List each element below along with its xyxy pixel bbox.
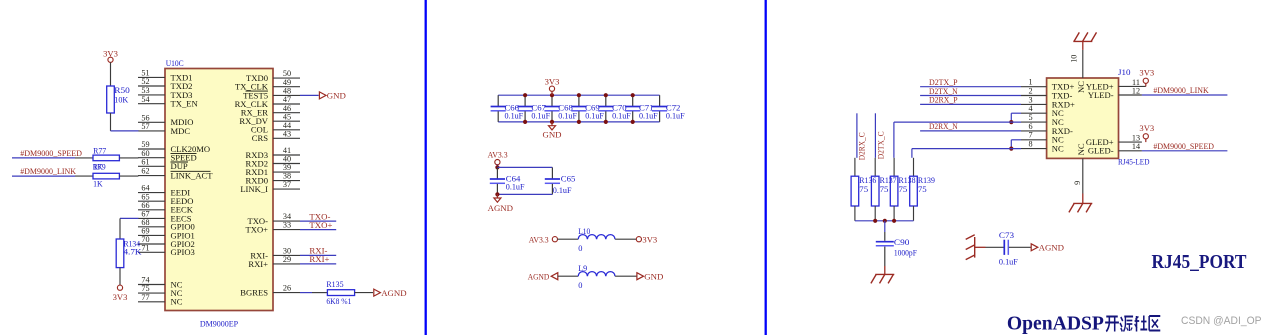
svg-text:L10: L10 xyxy=(578,227,590,236)
junction bus C90 xyxy=(883,219,887,223)
wire AV3.3 stem xyxy=(496,165,498,168)
RJ45 pin 2 TXD- xyxy=(1021,86,1072,100)
svg-text:8: 8 xyxy=(1028,140,1032,149)
svg-text:2: 2 xyxy=(1028,86,1032,95)
svg-text:D2TX_C: D2TX_C xyxy=(876,131,885,159)
svg-text:AGND: AGND xyxy=(528,272,550,282)
watermark CSDN @ADI_OP xyxy=(1181,315,1262,327)
svg-text:TXO+: TXO+ xyxy=(245,225,268,235)
svg-text:57: 57 xyxy=(141,122,149,131)
svg-text:3: 3 xyxy=(1028,95,1032,104)
capacitor C71 xyxy=(625,95,658,122)
wire R50 to pin 57 xyxy=(111,113,139,131)
IC J10 RJ45-LED body xyxy=(1047,78,1119,158)
svg-text:YLED-: YLED- xyxy=(1088,90,1114,100)
svg-text:AV3.3: AV3.3 xyxy=(488,150,508,160)
wire D2TX_N xyxy=(920,95,1021,97)
wire TXO- xyxy=(300,220,336,222)
svg-text:R77: R77 xyxy=(93,147,106,156)
svg-text:L9: L9 xyxy=(578,264,587,273)
IC U10C DM9000EP body xyxy=(165,69,273,311)
power port 3V3 (R134 bottom) xyxy=(113,285,128,302)
svg-text:RXI+: RXI+ xyxy=(309,254,329,264)
svg-text:6K8 %1: 6K8 %1 xyxy=(326,297,351,306)
RJ45 pin 5 NC xyxy=(1021,113,1064,127)
RJ45 pin 12 YLED- xyxy=(1088,86,1142,100)
pin 65 EEDO xyxy=(138,192,193,206)
resistor R134 xyxy=(116,239,141,268)
pin 49 TX_CLK xyxy=(235,78,300,92)
svg-text:J10: J10 xyxy=(1118,68,1131,77)
title OpenADSP xyxy=(1007,312,1104,334)
svg-text:OpenADSP: OpenADSP xyxy=(1007,312,1104,334)
power port 3V3 (cap rail) xyxy=(545,77,560,96)
svg-text:37: 37 xyxy=(283,180,291,189)
svg-text:D2RX_C: D2RX_C xyxy=(858,132,867,160)
junction bottom rail x=632.7 xyxy=(631,120,635,124)
pin 62 LINK_ACT xyxy=(138,167,213,181)
section divider line 2 xyxy=(765,0,767,335)
svg-text:52: 52 xyxy=(141,77,149,86)
wire RXI+ xyxy=(300,263,336,265)
svg-text:71: 71 xyxy=(141,243,149,252)
net label D2RX_P xyxy=(929,95,958,105)
wire L9 to GND xyxy=(615,275,637,277)
power port GND (pin 48) xyxy=(319,91,345,101)
svg-text:R79: R79 xyxy=(93,163,106,172)
svg-text:RJ45_PORT: RJ45_PORT xyxy=(1152,251,1248,273)
svg-text:1: 1 xyxy=(1028,78,1032,87)
svg-text:75: 75 xyxy=(918,185,927,194)
net label D2TX_N xyxy=(929,86,958,96)
wire D2TX_C xyxy=(874,113,876,158)
svg-text:3V3: 3V3 xyxy=(1139,67,1154,77)
capacitor C73 xyxy=(986,231,1032,266)
net label #DM9000_SPEED xyxy=(1153,141,1214,151)
pin 53 TXD3 xyxy=(138,86,192,100)
wire #DM9000_LINK xyxy=(1142,94,1228,96)
wire C64-C65 bottom xyxy=(497,193,552,195)
svg-text:D2RX_P: D2RX_P xyxy=(929,95,958,105)
svg-text:47: 47 xyxy=(283,95,291,104)
RJ45 pin 3 RXD+ xyxy=(1021,95,1075,109)
wire 3V3 rail xyxy=(498,94,659,96)
wire #DM9000_SPEED xyxy=(1142,150,1228,152)
wire TXO+ xyxy=(300,229,336,231)
power port AGND (L9) xyxy=(528,272,558,282)
svg-text:AGND: AGND xyxy=(1039,243,1064,253)
pin 50 TXD0 xyxy=(246,69,300,83)
net label D2RX_C xyxy=(858,132,867,160)
junction pin8 xyxy=(1009,147,1013,151)
earth ground (C90) xyxy=(871,266,894,283)
svg-text:NC: NC xyxy=(171,297,183,307)
svg-text:4.7K: 4.7K xyxy=(124,248,142,257)
RJ45 pin 6 RXD- xyxy=(1021,122,1073,136)
pin 69 GPIO1 xyxy=(138,227,195,241)
pin 70 GPIO2 xyxy=(138,235,195,249)
wire pin7 to pin8 xyxy=(1011,140,1021,149)
svg-text:75: 75 xyxy=(899,185,908,194)
svg-text:NC: NC xyxy=(1076,81,1086,93)
wire GND rail xyxy=(498,121,659,123)
svg-text:U10C: U10C xyxy=(166,59,184,68)
svg-text:10: 10 xyxy=(1069,55,1078,63)
section divider line 1 xyxy=(425,0,427,335)
RJ45 pin 7 NC xyxy=(1021,131,1064,145)
pin 38 RXD0 xyxy=(246,172,300,186)
svg-text:AV3.3: AV3.3 xyxy=(529,234,549,244)
svg-text:GPIO3: GPIO3 xyxy=(171,247,195,257)
inductor L10 xyxy=(578,227,615,253)
svg-text:3V3: 3V3 xyxy=(1139,123,1154,133)
part name DM9000EP xyxy=(200,320,239,329)
svg-text:0.1uF: 0.1uF xyxy=(639,111,658,120)
svg-text:CRS: CRS xyxy=(252,133,268,143)
svg-text:1000pF: 1000pF xyxy=(894,249,917,258)
resistor R77 xyxy=(75,147,138,172)
capacitor C70 xyxy=(598,95,631,122)
wire D2RX_P xyxy=(920,103,1021,105)
power port AGND (pin 26) xyxy=(374,288,407,298)
title RJ45_PORT xyxy=(1152,251,1248,273)
wire pin5 row xyxy=(894,122,1021,158)
pin 26 BGRES xyxy=(240,284,300,298)
svg-text:54: 54 xyxy=(141,95,149,104)
svg-text:LINK_ACT: LINK_ACT xyxy=(171,171,214,181)
resistor R138 xyxy=(890,158,915,221)
resistor R135 xyxy=(326,280,354,306)
svg-text:10K: 10K xyxy=(114,96,128,105)
RJ45 pin 9 NC (bottom) xyxy=(1073,143,1086,193)
junction bus R138 xyxy=(892,219,896,223)
pin 67 EECS xyxy=(138,210,192,224)
net label RXI+ xyxy=(309,254,329,264)
wire RXI- xyxy=(300,254,336,256)
svg-text:AGND: AGND xyxy=(488,203,513,213)
net label #DM9000_LINK xyxy=(20,166,76,176)
wire AGND to L9 xyxy=(558,275,578,277)
capacitor C66 xyxy=(491,95,524,122)
svg-text:29: 29 xyxy=(283,255,291,264)
svg-text:1K: 1K xyxy=(93,180,103,189)
earth ground (RJ45 bottom) xyxy=(1069,194,1092,213)
svg-text:0.1uF: 0.1uF xyxy=(506,183,525,192)
svg-text:62: 62 xyxy=(141,167,149,176)
resistor R136 xyxy=(851,158,876,221)
svg-text:59: 59 xyxy=(141,140,149,149)
wire #DM9000_LINK xyxy=(12,175,75,177)
svg-text:0.1uF: 0.1uF xyxy=(531,111,550,120)
svg-text:5: 5 xyxy=(1028,113,1032,122)
RJ45 pin 14 GLED- xyxy=(1088,142,1142,156)
junction bottom rail x=552.0 xyxy=(550,120,554,124)
pin 77 NC xyxy=(138,293,183,307)
svg-text:CSDN @ADI_OP: CSDN @ADI_OP xyxy=(1181,315,1262,327)
pin 43 CRS xyxy=(252,129,300,143)
wire 3V3 to R50 xyxy=(110,62,112,86)
junction pin5 xyxy=(1009,120,1013,124)
net label #DM9000_SPEED xyxy=(20,148,82,158)
part name RJ45-LED xyxy=(1118,158,1150,167)
junction top rail x=632.7 xyxy=(631,93,635,97)
pin 60 SPEED xyxy=(138,149,197,163)
junction C64 bottom xyxy=(495,192,499,196)
wire resistor bus xyxy=(855,220,914,222)
svg-text:26: 26 xyxy=(283,284,291,293)
pin 59 CLK20MO xyxy=(138,140,210,154)
capacitor C72 xyxy=(652,95,685,122)
junction top rail x=525.1 xyxy=(523,93,527,97)
RJ45 pin 1 TXD+ xyxy=(1021,78,1074,92)
designator U10C xyxy=(166,59,184,68)
pin 64 EEDI xyxy=(138,184,190,198)
svg-text:#DM9000_SPEED: #DM9000_SPEED xyxy=(20,148,82,158)
svg-text:GLED-: GLED- xyxy=(1088,146,1114,156)
earth ground (RJ45 top) xyxy=(1073,32,1096,50)
resistor R79 xyxy=(75,163,138,189)
svg-text:14: 14 xyxy=(1132,142,1140,151)
svg-text:75: 75 xyxy=(859,185,868,194)
pin 68 GPIO0 xyxy=(138,218,195,232)
wire pin4 to pin5 xyxy=(1011,113,1021,122)
capacitor C67 xyxy=(518,95,551,122)
wire pin 67 to R134 xyxy=(120,218,138,239)
pin 40 RXD2 xyxy=(246,155,300,169)
power port AV3.3 (L10) xyxy=(529,234,558,244)
svg-text:DM9000EP: DM9000EP xyxy=(200,320,239,329)
title 开源社区 xyxy=(1105,316,1160,332)
svg-text:75: 75 xyxy=(880,185,889,194)
svg-text:C90: C90 xyxy=(894,238,910,247)
wire R134 to 3V3 xyxy=(119,268,121,285)
pin 61 DUP xyxy=(138,157,188,171)
pin 47 RX_CLK xyxy=(235,95,300,109)
svg-text:0.1uF: 0.1uF xyxy=(553,186,572,195)
svg-text:NC: NC xyxy=(1076,143,1086,155)
svg-text:33: 33 xyxy=(283,221,291,230)
svg-text:TXO+: TXO+ xyxy=(309,220,332,230)
svg-text:0.1uF: 0.1uF xyxy=(505,111,524,120)
svg-text:49: 49 xyxy=(283,78,291,87)
svg-text:GND: GND xyxy=(542,130,561,140)
pin 57 MDC xyxy=(138,122,190,136)
RJ45 pin 8 NC xyxy=(1021,140,1064,154)
svg-text:53: 53 xyxy=(141,86,149,95)
pin 45 RX_DV xyxy=(239,112,300,126)
pin 29 RXI+ xyxy=(248,255,300,269)
wire #DM9000_SPEED xyxy=(12,157,75,159)
junction bottom rail x=578.9 xyxy=(577,120,581,124)
power port AGND (C73) xyxy=(1031,243,1064,253)
svg-text:RJ45-LED: RJ45-LED xyxy=(1118,158,1150,167)
svg-text:R50: R50 xyxy=(114,86,130,95)
svg-text:61: 61 xyxy=(141,157,149,166)
pin 46 RX_ER xyxy=(241,104,300,118)
resistor R137 xyxy=(871,158,896,221)
svg-text:LINK_I: LINK_I xyxy=(240,184,268,194)
pin 41 RXD3 xyxy=(246,146,300,160)
power port 3V3 (pin 11) xyxy=(1139,67,1154,86)
wire D2RX_C xyxy=(856,113,858,158)
power port AGND (C64) xyxy=(488,194,513,213)
wire pin 26 to R135 xyxy=(300,292,327,294)
svg-text:3V3: 3V3 xyxy=(545,77,560,87)
wire pin8 row xyxy=(912,149,1021,158)
pin 75 NC xyxy=(138,284,183,298)
wire AV3.3 to L10 xyxy=(558,238,579,240)
pin 48 TEST5 xyxy=(243,87,300,101)
svg-text:0.1uF: 0.1uF xyxy=(585,111,604,120)
svg-text:C65: C65 xyxy=(561,175,576,184)
pin 44 COL xyxy=(251,121,300,135)
svg-text:12: 12 xyxy=(1132,86,1140,95)
resistor R50 xyxy=(107,86,130,113)
pin 37 LINK_I xyxy=(240,180,300,194)
junction bottom rail x=605.8 xyxy=(604,120,608,124)
pin 33 TXO+ xyxy=(245,221,300,235)
svg-text:#DM9000_LINK: #DM9000_LINK xyxy=(1153,85,1209,95)
capacitor C65 xyxy=(545,167,576,195)
pin 52 TXD2 xyxy=(138,77,192,91)
wire pin 48 to GND xyxy=(300,94,319,96)
svg-text:0: 0 xyxy=(578,281,582,290)
svg-text:AGND: AGND xyxy=(381,288,406,298)
svg-text:0.1uF: 0.1uF xyxy=(612,111,631,120)
capacitor C90 xyxy=(876,221,917,266)
RJ45 pin 10 NC (top) xyxy=(1069,50,1086,93)
RJ45 pin 11 YLED+ xyxy=(1086,78,1146,92)
wire R135 to AGND xyxy=(355,292,373,294)
capacitor C68 xyxy=(544,95,577,122)
pin 54 TX_EN xyxy=(138,95,199,109)
net label D2TX_P xyxy=(929,77,958,87)
junction C64 top xyxy=(495,165,499,169)
inductor L9 xyxy=(578,264,615,290)
svg-text:0.1uF: 0.1uF xyxy=(666,111,685,120)
power port 3V3 (L10) xyxy=(636,234,657,244)
designator J10 xyxy=(1118,68,1131,77)
svg-text:C73: C73 xyxy=(999,231,1014,240)
pin 74 NC xyxy=(138,276,183,290)
svg-text:13: 13 xyxy=(1132,134,1140,143)
capacitor C64 xyxy=(490,167,525,194)
pin 39 RXD1 xyxy=(246,163,300,177)
RJ45 pin 13 GLED+ xyxy=(1086,134,1142,148)
power port AV3.3 (C64 top) xyxy=(488,150,508,165)
svg-text:0.1uF: 0.1uF xyxy=(558,111,577,120)
svg-text:0: 0 xyxy=(578,244,582,253)
earth ground (C73) xyxy=(966,235,986,260)
junction top rail x=552.0 xyxy=(550,93,554,97)
power port GND (cap rail) xyxy=(542,122,561,140)
pin 56 MDIO xyxy=(138,113,193,127)
junction bus R137 xyxy=(873,219,877,223)
svg-text:GND: GND xyxy=(327,91,346,101)
wire C64-C65 top xyxy=(497,166,552,168)
pin 51 TXD1 xyxy=(138,69,192,83)
svg-text:6: 6 xyxy=(1028,122,1032,131)
net label #DM9000_LINK xyxy=(1153,85,1209,95)
pin 66 EECK xyxy=(138,201,194,215)
svg-text:0.1uF: 0.1uF xyxy=(999,257,1018,266)
capacitor C69 xyxy=(571,95,604,122)
svg-text:R135: R135 xyxy=(326,280,343,289)
net label RXI- xyxy=(309,246,327,256)
svg-text:RXI+: RXI+ xyxy=(248,259,268,269)
net label D2TX_C xyxy=(876,131,885,159)
junction bottom rail x=525.1 xyxy=(523,120,527,124)
junction top rail x=605.8 xyxy=(604,93,608,97)
svg-text:3V3: 3V3 xyxy=(113,292,128,302)
svg-text:4: 4 xyxy=(1028,104,1032,113)
svg-text:TX_EN: TX_EN xyxy=(171,99,199,109)
svg-text:MDC: MDC xyxy=(171,126,191,136)
svg-text:GND: GND xyxy=(644,272,663,282)
pin 71 GPIO3 xyxy=(138,243,195,257)
pin 34 TXO- xyxy=(247,212,300,226)
power port 3V3 (R50 top) xyxy=(103,48,118,62)
svg-text:77: 77 xyxy=(141,293,149,302)
power port 3V3 (pin 13) xyxy=(1139,123,1154,142)
wire D2RX_N xyxy=(920,130,1021,132)
net label TXO+ xyxy=(309,220,332,230)
svg-text:7: 7 xyxy=(1028,131,1032,140)
svg-text:NC: NC xyxy=(1052,144,1064,154)
wire L10 to 3V3 xyxy=(615,238,636,240)
svg-text:#DM9000_LINK: #DM9000_LINK xyxy=(20,166,76,176)
svg-text:#DM9000_SPEED: #DM9000_SPEED xyxy=(1153,141,1214,151)
svg-text:43: 43 xyxy=(283,129,291,138)
net label TXO- xyxy=(309,211,330,221)
svg-text:3V3: 3V3 xyxy=(642,234,657,244)
resistor R139 xyxy=(910,158,935,221)
svg-text:9: 9 xyxy=(1073,181,1082,185)
net label D2RX_N xyxy=(929,121,958,131)
svg-text:BGRES: BGRES xyxy=(240,288,268,298)
pin 30 RXI- xyxy=(250,247,300,261)
wire D2TX_P xyxy=(920,86,1021,88)
power port GND (L9) xyxy=(637,272,663,282)
RJ45 pin 4 NC xyxy=(1021,104,1064,118)
junction top rail x=578.9 xyxy=(577,93,581,97)
svg-text:75: 75 xyxy=(141,284,149,293)
